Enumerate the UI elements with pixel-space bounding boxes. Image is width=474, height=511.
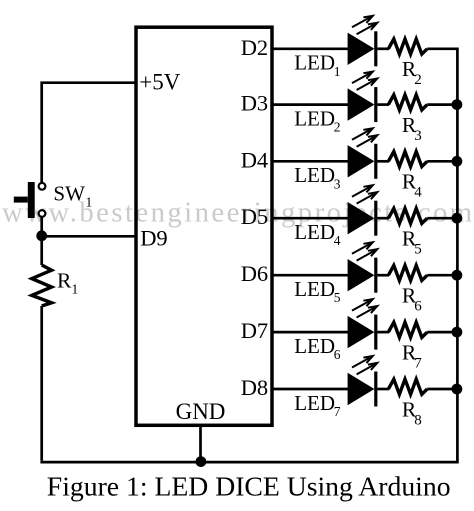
resistor R4 bbox=[388, 152, 427, 167]
svg-text:LED: LED bbox=[294, 51, 335, 75]
svg-text:2: 2 bbox=[334, 120, 341, 135]
LED LED3 bbox=[348, 128, 378, 179]
wire LED3 to R4 bbox=[377, 160, 389, 163]
svg-text:D4: D4 bbox=[241, 147, 269, 172]
wire LED1 to R2 bbox=[377, 47, 389, 50]
svg-text:1: 1 bbox=[72, 282, 79, 297]
label R5 bbox=[402, 227, 422, 258]
IC U1 (Arduino) bbox=[136, 27, 272, 425]
wire D2 pin to LED1 bbox=[272, 47, 349, 50]
wire R3 to right rail bbox=[427, 103, 459, 106]
wire R6 to right rail bbox=[427, 274, 459, 277]
label R3 bbox=[402, 113, 422, 144]
svg-text:D7: D7 bbox=[241, 318, 269, 343]
svg-text:LED: LED bbox=[294, 277, 335, 301]
svg-text:6: 6 bbox=[414, 299, 422, 315]
wire node A to D9 pin bbox=[42, 235, 136, 238]
svg-text:2: 2 bbox=[414, 72, 422, 88]
svg-text:1: 1 bbox=[86, 195, 93, 210]
wire R8 to right rail bbox=[427, 388, 459, 391]
wire D4 pin to LED3 bbox=[272, 160, 349, 163]
svg-text:7: 7 bbox=[414, 355, 422, 371]
LED LED1 bbox=[348, 16, 378, 67]
resistor R6 bbox=[388, 265, 427, 280]
LED LED7 bbox=[348, 356, 378, 407]
wire R1 to bottom rail bbox=[40, 306, 43, 461]
label R6 bbox=[402, 284, 422, 315]
label LED4 bbox=[294, 220, 341, 248]
svg-text:5: 5 bbox=[414, 242, 422, 258]
svg-text:5: 5 bbox=[334, 290, 341, 305]
wire LED5 to R6 bbox=[377, 274, 389, 277]
node rail row D6 junction dot bbox=[452, 270, 463, 281]
svg-text:LED: LED bbox=[294, 220, 335, 244]
node A junction dot bbox=[36, 230, 47, 241]
svg-text:8: 8 bbox=[414, 412, 422, 428]
label R8 bbox=[402, 397, 422, 428]
wire R4 to right rail bbox=[427, 160, 459, 163]
LED LED4 bbox=[348, 185, 378, 236]
wire R2 to right rail bbox=[427, 47, 459, 50]
label R2 bbox=[402, 57, 422, 88]
wire LED2 to R3 bbox=[377, 103, 389, 106]
label R1 bbox=[57, 269, 78, 297]
label LED2 bbox=[294, 106, 340, 134]
wire SW1 bottom to node A and R1 bbox=[40, 217, 43, 265]
wire D5 pin to LED4 bbox=[272, 217, 349, 220]
wire LED7 to R8 bbox=[377, 388, 389, 391]
label SW1 bbox=[53, 182, 92, 210]
resistor R8 bbox=[388, 379, 427, 394]
svg-text:D3: D3 bbox=[241, 91, 269, 116]
label LED6 bbox=[294, 334, 341, 362]
switch SW1 (pushbutton) bbox=[14, 182, 46, 218]
wire R7 to right rail bbox=[427, 331, 459, 334]
label LED1 bbox=[294, 51, 340, 79]
node rail row D5 junction dot bbox=[452, 213, 463, 224]
resistor R7 bbox=[388, 322, 427, 337]
svg-text:D8: D8 bbox=[241, 375, 269, 400]
label LED5 bbox=[294, 277, 341, 305]
svg-text:Figure 1: LED DICE Using Ardui: Figure 1: LED DICE Using Arduino bbox=[47, 471, 451, 502]
wire D6 pin to LED5 bbox=[272, 274, 349, 277]
svg-text:D2: D2 bbox=[241, 35, 269, 60]
LED LED2 bbox=[348, 72, 378, 123]
svg-text:3: 3 bbox=[414, 128, 422, 144]
wire D7 pin to LED6 bbox=[272, 331, 349, 334]
svg-text:SW: SW bbox=[53, 182, 85, 206]
node rail row D7 junction dot bbox=[452, 327, 463, 338]
svg-text:LED: LED bbox=[294, 334, 335, 358]
svg-text:D6: D6 bbox=[241, 261, 269, 286]
right rail wire bbox=[456, 49, 459, 462]
svg-text:3: 3 bbox=[334, 176, 341, 191]
node rail row D8 junction dot bbox=[452, 384, 463, 395]
wire +5V pin to switch SW1 top bbox=[42, 83, 136, 184]
resistor R5 bbox=[388, 208, 427, 223]
label R7 bbox=[402, 341, 422, 372]
wire GND pin to bottom rail bbox=[199, 427, 202, 462]
wire D3 pin to LED2 bbox=[272, 103, 349, 106]
label LED3 bbox=[294, 163, 341, 191]
svg-text:R: R bbox=[57, 269, 72, 293]
svg-text:6: 6 bbox=[334, 347, 341, 362]
label R4 bbox=[402, 170, 422, 201]
wire LED6 to R7 bbox=[377, 331, 389, 334]
LED LED6 bbox=[348, 299, 378, 350]
wire R5 to right rail bbox=[427, 217, 459, 220]
LED LED5 bbox=[348, 242, 378, 293]
wire LED4 to R5 bbox=[377, 217, 389, 220]
svg-text:LED: LED bbox=[294, 391, 335, 415]
resistor R2 bbox=[388, 39, 427, 54]
resistor R1 bbox=[32, 265, 52, 306]
svg-text:GND: GND bbox=[176, 399, 226, 424]
node rail row D3 junction dot bbox=[452, 99, 463, 110]
svg-text:4: 4 bbox=[334, 233, 341, 248]
svg-text:D5: D5 bbox=[241, 204, 269, 229]
svg-text:D9: D9 bbox=[140, 225, 168, 250]
svg-text:1: 1 bbox=[334, 64, 341, 79]
bottom rail wire bbox=[40, 461, 458, 464]
svg-text:7: 7 bbox=[334, 404, 341, 419]
wire D8 pin to LED7 bbox=[272, 388, 349, 391]
svg-text:4: 4 bbox=[414, 185, 422, 201]
node GND junction dot bbox=[196, 456, 207, 467]
label LED7 bbox=[294, 391, 341, 419]
resistor R3 bbox=[388, 95, 427, 110]
svg-text:+5V: +5V bbox=[139, 70, 180, 95]
svg-text:LED: LED bbox=[294, 163, 335, 187]
node rail row D4 junction dot bbox=[452, 156, 463, 167]
svg-text:LED: LED bbox=[294, 106, 335, 130]
